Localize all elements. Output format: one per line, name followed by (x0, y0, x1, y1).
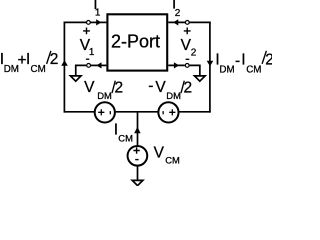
svg-text:2: 2 (191, 48, 197, 59)
svg-text:2: 2 (265, 51, 272, 68)
ground VCM (132, 180, 143, 185)
slash of IDM+ICM/2 (47, 51, 51, 64)
plus sign port1 (83, 28, 90, 35)
svg-text:2: 2 (175, 8, 181, 19)
wire top-right horizontal (190, 21, 211, 23)
svg-text:DM: DM (166, 90, 181, 101)
slash of -VDM/2 (181, 81, 184, 93)
wire between sources (116, 111, 158, 113)
svg-text:DM: DM (97, 90, 112, 101)
slash of IDM-ICM/2 (262, 51, 266, 64)
label VDM/2 (84, 79, 123, 101)
svg-text:-: - (148, 78, 153, 95)
wire middle vertical to VCM (137, 112, 139, 146)
svg-text:2: 2 (115, 80, 124, 97)
ground port1 (70, 76, 81, 81)
plus mark -VDM/2 (169, 109, 175, 115)
svg-text:V: V (155, 79, 166, 96)
arrowhead pointing left at port1- (96, 62, 101, 68)
wire port2- to ground (190, 65, 200, 76)
label IDM-ICM/2 (215, 51, 273, 75)
svg-text:CM: CM (246, 65, 261, 76)
wire bottom-right horizontal (179, 111, 211, 113)
svg-text:2: 2 (184, 80, 193, 97)
slash of VDM/2 (112, 81, 115, 93)
svg-text:I: I (241, 52, 245, 69)
source -VDM/2 (158, 102, 178, 122)
minus mark -VDM/2 (162, 111, 164, 114)
label IDM+ICM/2 (0, 51, 58, 75)
svg-text:-: - (235, 52, 240, 69)
wire port1- to ground (76, 65, 86, 76)
current arrow ICM up (134, 127, 140, 133)
minus mark VCM (135, 159, 138, 161)
wire left vertical (63, 22, 65, 113)
svg-text:V: V (84, 79, 95, 96)
plus sign port2 (184, 28, 191, 35)
wire box to port2- (168, 64, 185, 66)
terminal circle port2- (185, 64, 189, 68)
wire bottom-left horizontal (64, 111, 94, 113)
source VCM (128, 146, 148, 166)
minus sign port2 (186, 58, 190, 60)
arrowhead pointing right at port2- (174, 62, 179, 68)
minus mark VDM/2 (109, 111, 111, 114)
terminal circle port1- (87, 64, 91, 68)
current arrow IDM-ICM/2 down (207, 61, 214, 67)
plus mark VDM/2 (98, 109, 104, 115)
svg-text:CM: CM (165, 155, 180, 166)
wire right vertical (209, 22, 211, 113)
svg-text:CM: CM (118, 132, 133, 143)
arrowhead into box pointing left (173, 19, 178, 25)
svg-text:V: V (154, 144, 165, 161)
source VDM/2 (95, 102, 115, 122)
terminal circle port1+ (87, 21, 91, 25)
wire port1+ to box (91, 21, 107, 23)
wire top-left horizontal (64, 21, 87, 23)
svg-text:DM: DM (219, 65, 234, 76)
svg-text:1: 1 (95, 7, 101, 18)
terminal circle port2+ (185, 21, 189, 25)
svg-text:1: 1 (89, 47, 95, 58)
wire box to port2+ (168, 21, 185, 23)
arrowhead into box pointing right (96, 19, 101, 25)
minus sign port1 (86, 58, 89, 60)
svg-text:2-Port: 2-Port (111, 31, 160, 51)
svg-text:2: 2 (50, 51, 59, 68)
wire VCM to ground (137, 166, 139, 181)
2-port box (107, 14, 167, 70)
wire box to port1- (91, 64, 106, 66)
plus mark VCM (133, 147, 139, 153)
svg-text:CM: CM (31, 64, 46, 75)
ground port2 (195, 76, 206, 81)
label -VDM/2 (148, 78, 192, 102)
current arrow IDM+ICM/2 up (61, 60, 68, 66)
